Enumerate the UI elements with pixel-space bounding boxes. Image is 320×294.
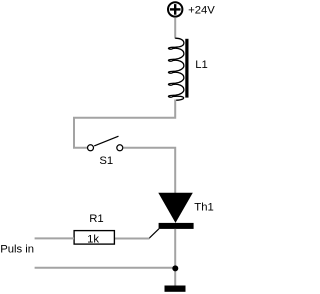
- wire puls-in to resistor: [35, 237, 75, 239]
- switch S1 right contact: [117, 145, 123, 151]
- inductor L1 coil: [168, 38, 183, 100]
- resistor R1 body: [74, 231, 114, 245]
- svg-text:Th1: Th1: [194, 201, 213, 213]
- thyristor Th1 cathode bar: [159, 223, 194, 229]
- wire L1 bottom to switch: [74, 100, 175, 148]
- wire from +24V to L1: [174, 17, 176, 38]
- wire bottom return: [35, 267, 175, 269]
- thyristor Th1 triangle: [158, 193, 193, 223]
- inductor L1 core bar: [185, 39, 188, 98]
- svg-text:1k: 1k: [87, 234, 99, 246]
- wire switch to thyristor anode: [123, 148, 175, 193]
- svg-text:S1: S1: [99, 155, 113, 167]
- wire thyristor cathode to ground: [174, 229, 176, 286]
- power terminal +24V: [168, 2, 182, 16]
- junction node: [172, 265, 178, 271]
- wire gate to resistor: [114, 238, 149, 240]
- thyristor gate lead: [149, 229, 159, 239]
- switch S1 left contact: [88, 145, 94, 151]
- ground: [165, 286, 186, 292]
- svg-text:L1: L1: [195, 59, 208, 71]
- svg-text:+24V: +24V: [188, 4, 215, 16]
- switch S1 lever: [94, 136, 118, 146]
- svg-text:R1: R1: [89, 213, 103, 225]
- svg-text:Puls in: Puls in: [0, 244, 34, 256]
